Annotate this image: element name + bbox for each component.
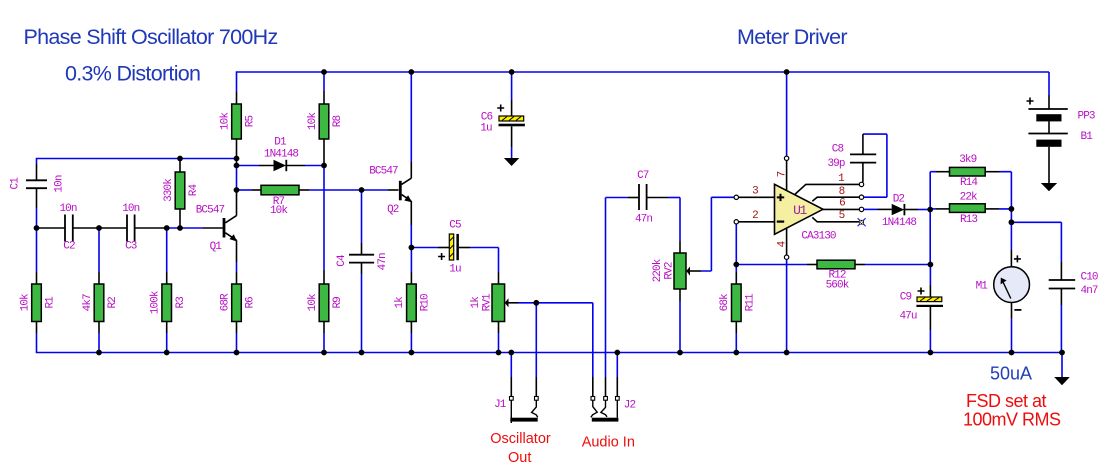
svg-text:47n: 47n xyxy=(635,214,652,226)
wire: J2 tip leg from C7 xyxy=(605,198,607,378)
svg-text:10n: 10n xyxy=(53,175,65,192)
svg-text:U1: U1 xyxy=(793,203,807,218)
op-amp pin 1 xyxy=(795,173,864,195)
capacitor C3 xyxy=(122,203,139,253)
wire: R5 branch down to Q1 collector node xyxy=(236,166,238,191)
svg-text:D1: D1 xyxy=(274,137,287,149)
svg-text:0.3% Distortion: 0.3% Distortion xyxy=(65,62,200,86)
capacitor C6 1u electrolytic xyxy=(480,72,525,166)
svg-text:C8: C8 xyxy=(832,144,844,156)
capacitor C9 47u electrolytic xyxy=(899,265,943,353)
svg-text:RV2: RV2 xyxy=(663,262,675,279)
svg-text:R2: R2 xyxy=(107,297,119,309)
wire: J2 ground leg xyxy=(616,353,618,378)
svg-text:D2: D2 xyxy=(893,194,905,206)
svg-text:10k: 10k xyxy=(219,112,231,130)
svg-text:100mV RMS: 100mV RMS xyxy=(963,410,1061,430)
svg-text:220k: 220k xyxy=(652,258,664,282)
diode D2 1N4148 xyxy=(878,194,931,230)
capacitor C5 1u electrolytic xyxy=(411,220,498,284)
transistor Q2 BC547 xyxy=(369,72,412,248)
svg-text:M1: M1 xyxy=(976,280,989,292)
svg-text:1N4148: 1N4148 xyxy=(882,217,917,229)
svg-text:2: 2 xyxy=(752,210,758,222)
svg-text:C2: C2 xyxy=(63,241,75,253)
resistor R8 xyxy=(307,72,344,166)
svg-text:C5: C5 xyxy=(449,220,461,232)
svg-text:BC547: BC547 xyxy=(369,166,398,178)
svg-text:J2: J2 xyxy=(624,400,636,412)
svg-text:C7: C7 xyxy=(637,170,649,182)
svg-text:R5: R5 xyxy=(245,116,257,128)
svg-text:Phase Shift Oscillator 700Hz: Phase Shift Oscillator 700Hz xyxy=(24,25,278,49)
svg-text:68R: 68R xyxy=(219,293,231,311)
capacitor C2 xyxy=(59,203,76,253)
svg-text:C4: C4 xyxy=(336,254,348,267)
resistor R6 xyxy=(219,284,256,353)
svg-text:R1: R1 xyxy=(45,296,57,309)
resistor R1 xyxy=(19,284,56,333)
svg-text:CA3130: CA3130 xyxy=(801,230,836,242)
resistor R9 xyxy=(307,284,344,353)
svg-text:7: 7 xyxy=(777,171,789,177)
svg-text:5: 5 xyxy=(839,210,845,222)
transistor Q1 BC547 xyxy=(196,190,237,284)
resistor R5 xyxy=(219,92,256,166)
svg-text:Audio In: Audio In xyxy=(582,435,635,451)
svg-text:10n: 10n xyxy=(59,203,76,215)
potentiometer RV1 xyxy=(470,284,537,353)
svg-text:FSD set at: FSD set at xyxy=(966,391,1047,411)
op-amp pin 8 xyxy=(812,134,887,201)
wire: top positive rail y=72 xyxy=(237,72,1050,92)
svg-text:Out: Out xyxy=(508,450,531,466)
svg-text:47n: 47n xyxy=(377,253,389,270)
svg-text:1k: 1k xyxy=(394,296,406,309)
svg-text:C10: C10 xyxy=(1081,271,1098,283)
capacitor C10 xyxy=(1011,222,1098,352)
resistor R12 xyxy=(736,260,930,291)
resistor R11 xyxy=(719,224,756,353)
svg-text:R10: R10 xyxy=(420,294,432,311)
svg-text:1u: 1u xyxy=(449,264,461,276)
resistor R2 xyxy=(82,284,119,353)
capacitor C7 xyxy=(606,170,681,226)
svg-text:50uA: 50uA xyxy=(990,363,1032,383)
ground: output node xyxy=(1054,353,1070,386)
svg-text:B1: B1 xyxy=(1081,131,1094,143)
resistor R3 xyxy=(150,284,187,353)
svg-text:68k: 68k xyxy=(719,293,731,311)
svg-text:R11: R11 xyxy=(745,293,757,311)
svg-text:Q1: Q1 xyxy=(210,241,223,253)
capacitor C4 xyxy=(336,190,389,353)
resistor R7 xyxy=(237,185,399,217)
svg-text:39p: 39p xyxy=(827,158,844,170)
resistor R13 xyxy=(930,192,1011,227)
svg-text:10k: 10k xyxy=(307,112,319,130)
svg-text:R6: R6 xyxy=(245,297,257,309)
svg-text:1u: 1u xyxy=(480,122,492,134)
resistor R10 xyxy=(394,248,431,353)
svg-text:10k: 10k xyxy=(19,293,31,311)
svg-text:22k: 22k xyxy=(960,192,978,204)
svg-text:Meter Driver: Meter Driver xyxy=(737,25,847,49)
connector J2 xyxy=(591,397,636,422)
meter M1 xyxy=(976,222,1030,352)
svg-text:8: 8 xyxy=(839,186,845,198)
svg-text:1N4148: 1N4148 xyxy=(264,148,299,160)
wire: R1 top xyxy=(36,228,38,272)
svg-text:4n7: 4n7 xyxy=(1081,285,1098,297)
resistor R14 xyxy=(930,154,1011,210)
op-amp U1 CA3130 xyxy=(775,72,836,353)
svg-text:47u: 47u xyxy=(899,311,916,323)
svg-text:C1: C1 xyxy=(9,177,21,190)
wire: C9 node to D2 node xyxy=(929,210,931,265)
op-amp pin 5 no-connect xyxy=(812,210,865,226)
op-amp pin 6 output xyxy=(823,198,878,212)
svg-text:4k7: 4k7 xyxy=(82,294,94,311)
svg-text:3: 3 xyxy=(752,186,758,198)
wire: left rail y=158.5 from C1 to R5 branch xyxy=(37,159,237,165)
wire: phase shift chain y=228 xyxy=(167,227,203,229)
svg-text:C3: C3 xyxy=(125,241,137,253)
diode D1 1N4148 xyxy=(237,137,325,172)
capacitor C1 xyxy=(9,164,65,228)
wire: R3 top xyxy=(166,228,168,272)
svg-text:Q2: Q2 xyxy=(387,204,399,216)
svg-text:R14: R14 xyxy=(960,177,978,189)
capacitor C8 39p xyxy=(827,134,876,182)
connector J1 xyxy=(494,397,538,424)
wire: ground rail y=352.5 xyxy=(37,333,1063,353)
wire: R2 top xyxy=(98,228,100,272)
svg-text:Oscillator: Oscillator xyxy=(490,431,551,447)
svg-text:1k: 1k xyxy=(470,296,482,309)
svg-text:560k: 560k xyxy=(826,280,850,292)
svg-text:PP3: PP3 xyxy=(1078,111,1095,123)
svg-text:R13: R13 xyxy=(960,214,977,226)
resistor R4 xyxy=(163,159,200,229)
svg-text:C9: C9 xyxy=(900,292,912,304)
svg-text:BC547: BC547 xyxy=(196,205,225,217)
op-amp pin 2 input xyxy=(734,210,774,224)
svg-text:RV1: RV1 xyxy=(482,293,494,311)
svg-text:330k: 330k xyxy=(163,178,175,202)
svg-text:J1: J1 xyxy=(494,399,507,411)
svg-text:R9: R9 xyxy=(332,297,344,309)
op-amp pin 3 input xyxy=(734,186,774,200)
svg-text:100k: 100k xyxy=(150,290,162,314)
svg-text:10n: 10n xyxy=(122,203,139,215)
wire: RV1 wiper to jacks xyxy=(536,303,593,377)
svg-text:3k9: 3k9 xyxy=(959,154,976,166)
svg-text:6: 6 xyxy=(839,198,845,210)
svg-text:10k: 10k xyxy=(307,293,319,311)
battery B1 PP3 xyxy=(1027,72,1095,191)
svg-text:10k: 10k xyxy=(270,205,288,217)
potentiometer RV2 xyxy=(652,197,734,352)
svg-text:R4: R4 xyxy=(188,184,200,197)
wire: J1 ground leg xyxy=(510,353,512,378)
svg-text:R8: R8 xyxy=(332,116,344,128)
svg-text:R3: R3 xyxy=(175,297,187,309)
wire: R8 line down to R9 xyxy=(323,166,325,271)
